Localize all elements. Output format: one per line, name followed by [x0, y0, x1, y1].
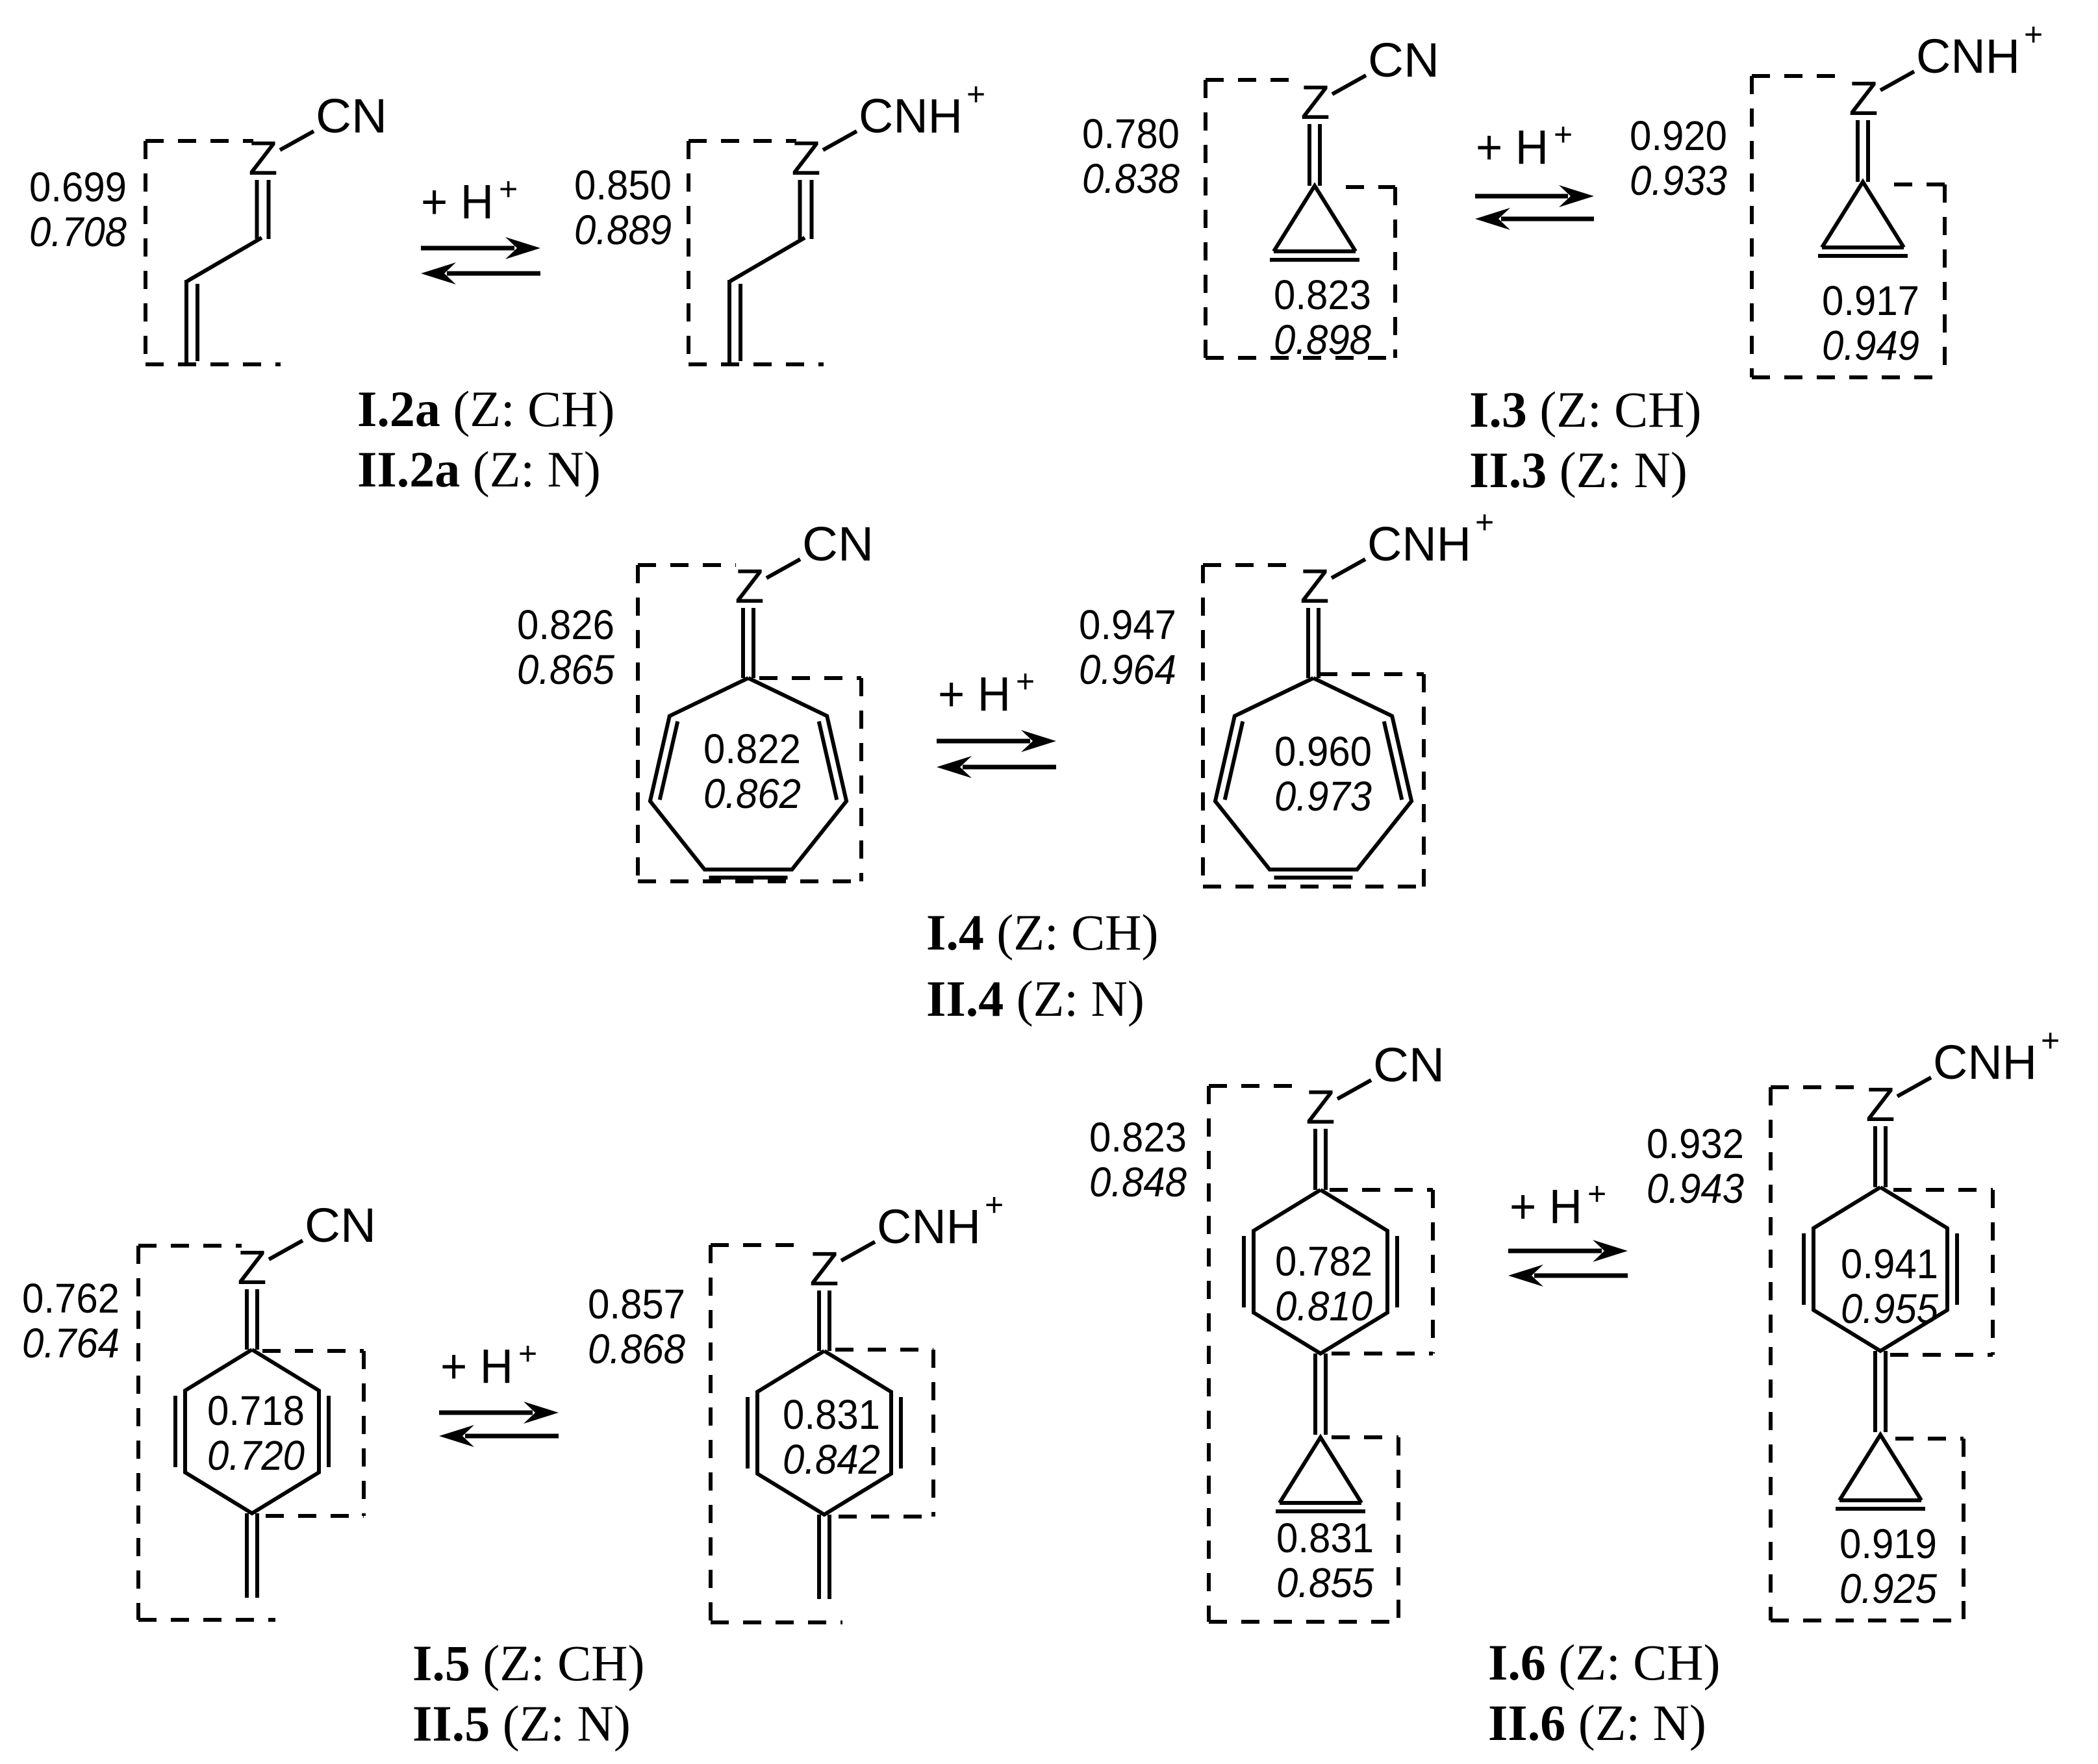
forward arrowhead of reaction 4 [524, 1402, 559, 1424]
svg-text:+: + [2024, 16, 2043, 53]
dashed box bottom edge of I.3 [1206, 356, 1395, 360]
double bond line of C=C exocyclic lower of I.6 [1313, 1354, 1317, 1435]
forward arrowhead of reaction 3 [1021, 730, 1056, 752]
dashed lower inner box top edge of I.6 [1332, 1435, 1398, 1439]
forward arrow shaft of reaction 3 [937, 739, 1030, 744]
dashed box step edge of I.3H+ [1894, 183, 1945, 186]
svg-text:0.699: 0.699 [29, 164, 127, 210]
svg-text:Z: Z [809, 1242, 839, 1296]
cyclopropene base of I.6 [1280, 1501, 1361, 1505]
dashed outer box bottom edge of I.6 [1209, 1620, 1398, 1624]
ring double bond (right, outer line) of I.5H+ [899, 1397, 903, 1468]
dashed outer box top edge of I.6H+ [1771, 1085, 1865, 1089]
svg-text:0.762: 0.762 [22, 1275, 120, 1322]
svg-text:II.6 (Z: N): II.6 (Z: N) [1488, 1695, 1706, 1751]
dashed outer box top edge of I.5 [138, 1244, 242, 1248]
svg-text:0.838: 0.838 [1082, 155, 1180, 202]
svg-text:0.960: 0.960 [1274, 728, 1372, 775]
svg-text:CN: CN [1368, 33, 1439, 87]
ring double bond (bottom) of I.4 [709, 876, 788, 879]
dashed upper inner box top edge of I.6 [1330, 1188, 1433, 1192]
dashed box bottom edge of I.2a [145, 362, 281, 366]
cyclopropene base of I.6H+ [1839, 1498, 1921, 1502]
benzene ring of I.5 [185, 1350, 319, 1513]
svg-text:0.810: 0.810 [1275, 1283, 1372, 1329]
svg-text:0.955: 0.955 [1841, 1285, 1938, 1332]
svg-text:0.848: 0.848 [1089, 1159, 1187, 1205]
dashed upper inner box right edge of I.6H+ [1991, 1190, 1995, 1355]
svg-text:0.708: 0.708 [29, 208, 127, 255]
double bond line of Z=C exocyclic of I.5 [255, 1289, 259, 1350]
svg-text:II.3 (Z: N): II.3 (Z: N) [1469, 442, 1687, 498]
reverse arrowhead of reaction 5 [1508, 1265, 1543, 1287]
svg-text:CNH: CNH [877, 1200, 981, 1254]
svg-text:+: + [2041, 1022, 2060, 1059]
dashed box left edge of I.2a [144, 141, 147, 364]
double bond line of C1=C2 of I.2a [255, 180, 259, 239]
double bond line of C=C exocyclic of I.3H+ [1866, 120, 1870, 182]
C2-C3 single bond of I.2a [187, 238, 262, 281]
dashed lower inner box top edge of I.6H+ [1895, 1437, 1964, 1441]
svg-text:CNH: CNH [859, 89, 963, 143]
cyclopropene double bond of I.6H+ [1836, 1507, 1925, 1511]
dashed box bottom edge of I.3H+ [1752, 375, 1945, 379]
svg-text:0.831: 0.831 [1276, 1515, 1374, 1561]
C2-C3 single bond of I.2aH+ [730, 238, 805, 281]
svg-text:0.898: 0.898 [1274, 316, 1371, 363]
forward arrow shaft of reaction 4 [439, 1411, 533, 1415]
ring double bond of I.4H+ [1384, 722, 1402, 800]
svg-text:0.823: 0.823 [1089, 1114, 1187, 1161]
ring double bond (bottom) of I.4H+ [1274, 876, 1353, 879]
reverse arrow shaft of reaction 5 [1534, 1274, 1628, 1278]
dashed box bottom edge of I.2aH+ [689, 362, 824, 366]
dashed lower inner box right edge of I.6H+ [1962, 1439, 1965, 1620]
reverse arrowhead of reaction 2 [1475, 208, 1510, 230]
svg-text:CN: CN [1373, 1038, 1445, 1092]
svg-text:+: + [1587, 1176, 1606, 1212]
ring double bond of I.4 [660, 722, 678, 800]
svg-text:+: + [499, 171, 518, 207]
svg-text:0.857: 0.857 [588, 1281, 685, 1328]
dashed box left edge of I.4H+ [1201, 565, 1205, 887]
double bond line of C=C exocyclic lower of I.6 [1324, 1354, 1328, 1435]
svg-text:Z: Z [1300, 559, 1329, 613]
dashed outer box bottom edge of I.5H+ [711, 1620, 842, 1624]
reverse arrowhead of reaction 4 [439, 1425, 474, 1447]
bond Z-C of I.4 [766, 559, 800, 578]
svg-text:+: + [518, 1335, 537, 1372]
reverse arrowhead of reaction 1 [421, 262, 456, 284]
dashed inner box bottom edge of I.5 [266, 1514, 364, 1518]
svg-text:+ H: + H [440, 1339, 513, 1393]
dashed outer box top edge of I.6 [1209, 1084, 1306, 1088]
C3=C4 double bond line of I.2aH+ [739, 284, 742, 361]
C3=C4 double bond line of I.2aH+ [727, 280, 731, 363]
dashed box left edge of I.2aH+ [687, 141, 690, 364]
C3=C4 double bond line of I.2a [196, 284, 199, 361]
double bond line of Z=C exocyclic of I.6 [1313, 1129, 1317, 1190]
benzene ring of I.6H+ [1814, 1187, 1947, 1351]
svg-text:+: + [967, 76, 985, 112]
svg-text:0.933: 0.933 [1630, 157, 1727, 204]
dashed outer box left edge of I.5 [136, 1246, 140, 1620]
svg-text:0.826: 0.826 [517, 601, 614, 648]
forward arrow shaft of reaction 2 [1475, 194, 1568, 199]
dashed box left edge of I.3 [1204, 80, 1207, 358]
reverse arrow shaft of reaction 2 [1501, 217, 1594, 221]
svg-text:+ H: + H [938, 667, 1011, 721]
dashed box right edge of I.3H+ [1943, 184, 1947, 377]
svg-text:0.917: 0.917 [1822, 277, 1919, 324]
svg-text:+: + [1016, 663, 1035, 699]
dashed inner box right edge of I.5 [362, 1351, 366, 1516]
svg-text:0.780: 0.780 [1082, 110, 1180, 157]
svg-text:CN: CN [802, 517, 874, 571]
svg-text:Z: Z [1300, 75, 1330, 129]
svg-text:0.941: 0.941 [1841, 1241, 1938, 1287]
bond Z-C of I.2a [280, 131, 314, 150]
dashed upper inner box right edge of I.6 [1431, 1190, 1435, 1354]
seven-membered ring of I.4H+ [1215, 678, 1411, 870]
cyclopropene base of I.3 [1274, 249, 1356, 253]
svg-text:Z: Z [248, 131, 277, 185]
double bond line of Z=C exocyclic of I.6H+ [1873, 1126, 1877, 1187]
svg-text:0.868: 0.868 [588, 1326, 685, 1372]
cyclopropene double bond of I.3 [1270, 258, 1359, 262]
svg-text:0.920: 0.920 [1630, 112, 1727, 159]
svg-text:II.4 (Z: N): II.4 (Z: N) [926, 970, 1144, 1027]
svg-text:0.862: 0.862 [703, 770, 801, 817]
ring double bond (left, outer line) of I.5H+ [746, 1397, 750, 1468]
dashed inner box bottom edge of I.5H+ [839, 1515, 933, 1518]
double bond line of C1=C2 of I.2aH+ [810, 180, 814, 239]
svg-text:0.764: 0.764 [22, 1320, 120, 1367]
ring double bond (right, outer line) of I.5 [327, 1396, 331, 1467]
svg-text:CNH: CNH [1933, 1035, 2037, 1089]
ring double bond (left, outer line) of I.5 [173, 1396, 177, 1467]
svg-text:0.842: 0.842 [783, 1436, 880, 1483]
svg-text:I.4 (Z: CH): I.4 (Z: CH) [926, 904, 1158, 961]
double bond line of Z=C exocyclic of I.6 [1324, 1129, 1328, 1190]
forward arrowhead of reaction 5 [1593, 1240, 1628, 1262]
ring double bond (right, outer line) of I.6H+ [1955, 1233, 1959, 1305]
forward arrow shaft of reaction 5 [1508, 1249, 1602, 1254]
svg-text:I.6 (Z: CH): I.6 (Z: CH) [1488, 1634, 1720, 1691]
svg-text:0.718: 0.718 [207, 1387, 305, 1434]
svg-text:+: + [1554, 116, 1573, 153]
svg-text:II.5 (Z: N): II.5 (Z: N) [412, 1695, 631, 1752]
svg-text:0.865: 0.865 [517, 646, 614, 693]
forward arrow shaft of reaction 1 [421, 246, 514, 251]
svg-text:I.5 (Z: CH): I.5 (Z: CH) [412, 1635, 644, 1691]
dashed box top edge of I.3 [1206, 78, 1300, 82]
svg-text:+ H: + H [421, 175, 494, 229]
dashed outer box bottom edge of I.6H+ [1771, 1619, 1964, 1622]
svg-text:II.2a (Z: N): II.2a (Z: N) [357, 441, 601, 498]
double bond line of C=C exocyclic of I.4 [752, 608, 755, 678]
svg-text:Z: Z [1306, 1080, 1335, 1134]
svg-text:0.855: 0.855 [1276, 1559, 1374, 1606]
dashed outer box left edge of I.5H+ [709, 1245, 713, 1622]
double bond line of C=C exocyclic of I.3 [1318, 124, 1322, 186]
bond Z-C of I.3 [1332, 75, 1366, 94]
dashed upper inner box bottom edge of I.6 [1332, 1352, 1433, 1355]
svg-text:+ H: + H [1510, 1179, 1582, 1233]
svg-text:0.925: 0.925 [1839, 1565, 1937, 1612]
svg-text:Z: Z [735, 559, 764, 613]
double bond line of C=C exocyclic of I.3H+ [1856, 120, 1860, 182]
svg-text:+: + [1475, 504, 1494, 540]
dashed box top edge of I.2a [145, 139, 253, 143]
bond Z-C of I.4H+ [1332, 559, 1365, 578]
dashed box step edge of I.4 [759, 676, 861, 680]
double bond line of C=C exocyclic lower of I.6H+ [1873, 1351, 1877, 1432]
dashed box left edge of I.4 [636, 565, 640, 881]
svg-text:0.932: 0.932 [1647, 1120, 1744, 1167]
cyclopropene double bond of I.3H+ [1818, 254, 1908, 258]
svg-text:0.973: 0.973 [1274, 773, 1372, 820]
dashed box top edge of I.4 [638, 563, 736, 567]
dashed box right edge of I.4H+ [1422, 674, 1426, 887]
reverse arrowhead of reaction 3 [937, 756, 972, 778]
double bond line of C1=C2 of I.2a [267, 180, 271, 239]
double bond line of Z=C exocyclic of I.6H+ [1884, 1126, 1888, 1187]
svg-text:0.822: 0.822 [703, 725, 801, 772]
svg-text:I.3 (Z: CH): I.3 (Z: CH) [1469, 381, 1701, 438]
dashed box left edge of I.3H+ [1750, 76, 1754, 377]
ring double bond (left, outer line) of I.6 [1242, 1236, 1246, 1307]
dashed lower inner box right edge of I.6 [1397, 1437, 1400, 1622]
cyclopropene base of I.3H+ [1822, 246, 1904, 249]
dashed box top edge of I.4H+ [1203, 563, 1298, 567]
svg-text:0.919: 0.919 [1839, 1520, 1937, 1567]
bond Z-C of I.2aH+ [823, 131, 857, 150]
svg-text:CN: CN [316, 89, 387, 143]
forward arrowhead of reaction 1 [505, 237, 540, 259]
svg-text:0.850: 0.850 [574, 162, 672, 208]
double bond line of C=C exocyclic of I.3 [1308, 124, 1311, 186]
dashed box step edge of I.3 [1346, 185, 1395, 189]
svg-text:0.782: 0.782 [1275, 1238, 1372, 1285]
dashed box bottom edge of I.4 [638, 879, 861, 883]
svg-text:0.823: 0.823 [1274, 271, 1371, 318]
svg-text:0.943: 0.943 [1647, 1165, 1744, 1212]
ring double bond (right, outer line) of I.6 [1395, 1236, 1399, 1307]
svg-text:Z: Z [1865, 1077, 1895, 1131]
double bond line of C=C exocyclic of I.4 [741, 608, 745, 678]
svg-text:Z: Z [237, 1241, 266, 1294]
dashed upper inner box top edge of I.6H+ [1893, 1188, 1993, 1192]
bond Z-C of I.3H+ [1880, 71, 1914, 90]
dashed inner box top edge of I.5 [262, 1349, 364, 1353]
dashed outer box left edge of I.6 [1207, 1086, 1211, 1622]
double bond line of Z=C exocyclic of I.5H+ [828, 1291, 831, 1351]
dashed box bottom edge of I.4H+ [1203, 885, 1424, 888]
svg-text:Z: Z [791, 131, 820, 185]
double bond line of exocyclic CH2 of I.5H+ [817, 1515, 821, 1599]
dashed inner box top edge of I.5H+ [835, 1348, 933, 1352]
cyclopropene ring of I.3 [1274, 186, 1356, 251]
double bond line of C=C exocyclic of I.4H+ [1317, 608, 1321, 678]
dashed box right edge of I.4 [859, 678, 863, 881]
double bond line of C=C exocyclic of I.4H+ [1306, 608, 1310, 678]
ring double bond (left, outer line) of I.6H+ [1802, 1233, 1806, 1305]
benzene ring of I.6 [1254, 1190, 1387, 1354]
svg-text:0.831: 0.831 [783, 1391, 880, 1438]
dashed outer box left edge of I.6H+ [1769, 1087, 1773, 1620]
double bond line of exocyclic CH2 of I.5 [255, 1513, 259, 1598]
cyclopropene ring of I.3H+ [1822, 182, 1904, 247]
svg-text:Z: Z [1849, 71, 1878, 125]
double bond line of Z=C exocyclic of I.5 [245, 1289, 249, 1350]
svg-text:0.889: 0.889 [574, 207, 672, 253]
bond Z-C of I.5H+ [841, 1242, 875, 1261]
dashed box top edge of I.3H+ [1752, 74, 1848, 78]
dashed inner box right edge of I.5H+ [931, 1350, 935, 1517]
double bond line of Z=C exocyclic of I.5H+ [817, 1291, 821, 1351]
reverse arrow shaft of reaction 1 [447, 271, 540, 276]
svg-text:CNH: CNH [1367, 517, 1471, 571]
bond Z-C of I.5 [269, 1241, 303, 1259]
double bond line of C=C exocyclic lower of I.6H+ [1884, 1351, 1888, 1432]
seven-membered ring of I.4 [650, 678, 846, 870]
svg-text:+: + [985, 1187, 1004, 1223]
svg-text:CNH: CNH [1916, 29, 2020, 83]
double bond line of exocyclic CH2 of I.5 [245, 1513, 249, 1598]
ring double bond of I.4 [819, 722, 837, 800]
svg-text:0.720: 0.720 [207, 1432, 305, 1479]
double bond line of C1=C2 of I.2aH+ [798, 180, 802, 239]
forward arrowhead of reaction 2 [1559, 185, 1594, 207]
svg-text:CN: CN [305, 1198, 376, 1252]
svg-text:0.949: 0.949 [1822, 322, 1919, 369]
cyclopropene ring of I.6 [1280, 1437, 1361, 1503]
dashed outer box bottom edge of I.5 [138, 1618, 275, 1622]
dashed box right edge of I.3 [1393, 187, 1397, 358]
C3=C4 double bond line of I.2a [184, 280, 188, 363]
svg-text:0.947: 0.947 [1079, 601, 1176, 648]
dashed outer box top edge of I.5H+ [711, 1243, 805, 1247]
double bond line of exocyclic CH2 of I.5H+ [828, 1515, 831, 1599]
svg-text:I.2a (Z: CH): I.2a (Z: CH) [357, 381, 614, 437]
dashed box top edge of I.2aH+ [689, 139, 796, 143]
bond Z-C of I.6 [1337, 1080, 1371, 1099]
dashed upper inner box bottom edge of I.6H+ [1890, 1353, 1993, 1357]
dashed box step edge of I.4H+ [1319, 672, 1424, 676]
benzene ring of I.5H+ [757, 1351, 891, 1515]
cyclopropene ring of I.6H+ [1839, 1435, 1921, 1500]
svg-text:0.964: 0.964 [1079, 646, 1176, 693]
reverse arrow shaft of reaction 3 [963, 765, 1056, 770]
reverse arrow shaft of reaction 4 [465, 1434, 559, 1439]
cyclopropene double bond of I.6 [1276, 1509, 1365, 1513]
bond Z-C of I.6H+ [1897, 1077, 1931, 1096]
svg-text:+ H: + H [1476, 120, 1548, 174]
ring double bond of I.4H+ [1225, 722, 1243, 800]
